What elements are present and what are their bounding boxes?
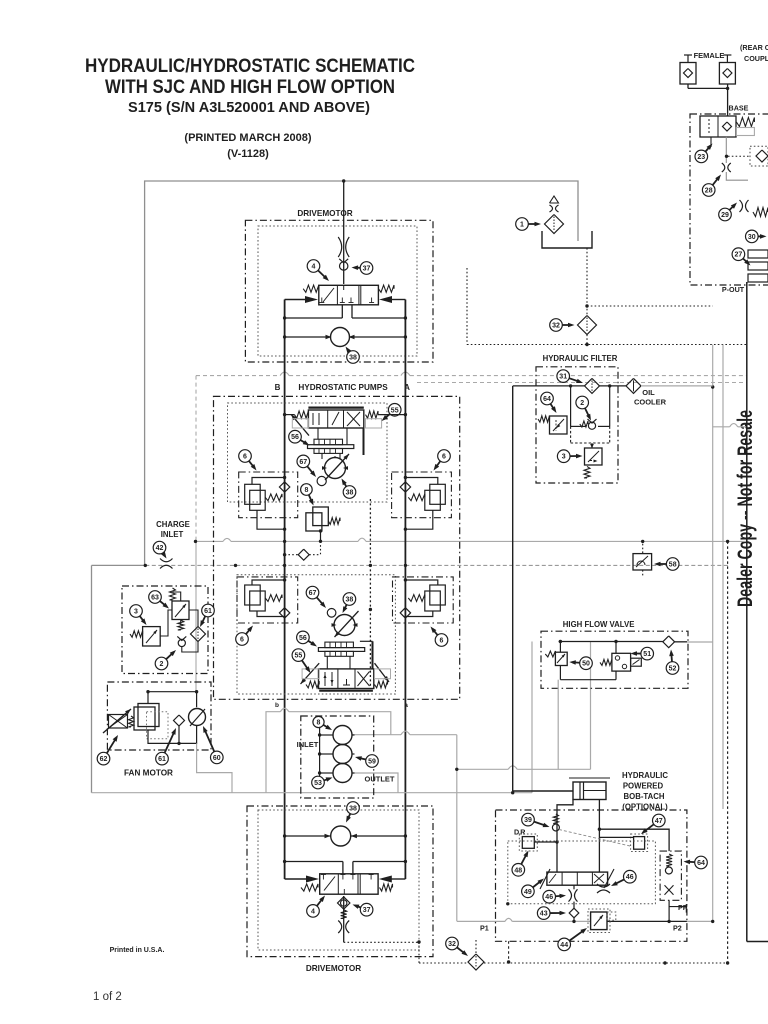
svg-text:COOLER: COOLER (634, 398, 667, 407)
svg-text:HYDRAULIC: HYDRAULIC (622, 771, 668, 780)
svg-text:COUPL: COUPL (744, 54, 768, 63)
svg-text:43: 43 (540, 911, 548, 918)
svg-text:P1: P1 (480, 924, 489, 933)
svg-text:Printed in U.S.A.: Printed in U.S.A. (110, 947, 165, 954)
svg-text:51: 51 (643, 651, 651, 658)
svg-text:1: 1 (520, 222, 524, 229)
svg-text:64: 64 (543, 396, 551, 403)
svg-text:1 of 2: 1 of 2 (93, 991, 122, 1003)
svg-text:58: 58 (669, 562, 677, 569)
svg-text:62: 62 (100, 756, 108, 763)
svg-text:60: 60 (213, 755, 221, 762)
svg-text:63: 63 (151, 595, 159, 602)
svg-text:61: 61 (204, 608, 212, 615)
svg-text:3: 3 (562, 454, 566, 461)
svg-text:DRIVEMOTOR: DRIVEMOTOR (306, 964, 361, 973)
svg-text:BOB-TACH: BOB-TACH (624, 792, 665, 801)
svg-text:8: 8 (317, 720, 321, 727)
svg-text:(REAR C: (REAR C (740, 43, 768, 52)
svg-text:2: 2 (160, 661, 164, 668)
svg-text:6: 6 (442, 454, 446, 461)
svg-text:32: 32 (552, 323, 560, 330)
svg-text:6: 6 (243, 454, 247, 461)
svg-text:37: 37 (363, 907, 371, 914)
svg-text:46: 46 (545, 894, 553, 901)
svg-text:44: 44 (560, 942, 568, 949)
svg-text:BASE: BASE (729, 104, 749, 113)
svg-text:(PRINTED MARCH 2008): (PRINTED MARCH 2008) (184, 132, 311, 144)
svg-text:FEMALE: FEMALE (694, 51, 725, 60)
svg-text:38: 38 (349, 355, 357, 362)
svg-text:Dealer Copy -- Not for Resale: Dealer Copy -- Not for Resale (734, 410, 757, 607)
svg-text:55: 55 (295, 653, 303, 660)
svg-text:29: 29 (721, 212, 729, 219)
svg-text:50: 50 (582, 661, 590, 668)
svg-text:S175 (S/N A3L520001 AND ABOVE): S175 (S/N A3L520001 AND ABOVE) (128, 99, 370, 116)
svg-text:HIGH FLOW VALVE: HIGH FLOW VALVE (563, 620, 635, 629)
svg-text:67: 67 (309, 590, 317, 597)
svg-text:46: 46 (626, 874, 634, 881)
svg-text:OUTLET: OUTLET (365, 775, 395, 784)
svg-text:HYDRAULIC/HYDROSTATIC SCHEMATI: HYDRAULIC/HYDROSTATIC SCHEMATIC (85, 56, 415, 77)
svg-text:59: 59 (368, 759, 376, 766)
svg-text:P-OUT: P-OUT (722, 285, 745, 294)
svg-text:6: 6 (240, 637, 244, 644)
svg-text:WITH SJC AND HIGH FLOW OPTION: WITH SJC AND HIGH FLOW OPTION (105, 77, 395, 98)
svg-text:61: 61 (158, 756, 166, 763)
svg-text:30: 30 (748, 234, 756, 241)
svg-text:A: A (404, 383, 410, 392)
svg-text:B: B (275, 383, 281, 392)
svg-text:4: 4 (312, 264, 316, 271)
svg-text:52: 52 (669, 666, 677, 673)
svg-text:DR: DR (514, 828, 526, 837)
svg-text:HYDROSTATIC PUMPS: HYDROSTATIC PUMPS (298, 383, 388, 392)
svg-text:64: 64 (697, 860, 705, 867)
svg-text:67: 67 (299, 459, 307, 466)
svg-text:P2: P2 (673, 924, 682, 933)
svg-text:2: 2 (580, 400, 584, 407)
svg-text:6: 6 (440, 638, 444, 645)
svg-text:37: 37 (363, 266, 371, 273)
svg-text:DRIVEMOTOR: DRIVEMOTOR (297, 209, 352, 218)
svg-text:(V-1128): (V-1128) (227, 148, 269, 160)
svg-text:42: 42 (156, 545, 164, 552)
svg-text:53: 53 (314, 780, 322, 787)
svg-text:55: 55 (391, 407, 399, 414)
svg-text:38: 38 (346, 490, 354, 497)
svg-text:4: 4 (311, 908, 315, 915)
svg-text:48: 48 (514, 867, 522, 874)
svg-text:POWERED: POWERED (623, 782, 664, 791)
svg-text:OIL: OIL (642, 388, 655, 397)
svg-text:56: 56 (291, 434, 299, 441)
svg-text:39: 39 (524, 817, 532, 824)
svg-text:INLET: INLET (161, 530, 184, 539)
svg-text:56: 56 (299, 635, 307, 642)
svg-text:32: 32 (448, 941, 456, 948)
svg-text:49: 49 (524, 889, 532, 896)
svg-text:HYDRAULIC FILTER: HYDRAULIC FILTER (543, 354, 618, 363)
svg-text:INLET: INLET (297, 740, 319, 749)
svg-text:b: b (275, 702, 279, 709)
svg-text:CHARGE: CHARGE (156, 520, 190, 529)
svg-text:a: a (404, 702, 408, 709)
svg-text:27: 27 (735, 252, 743, 259)
svg-text:FAN MOTOR: FAN MOTOR (124, 769, 173, 778)
svg-text:38: 38 (346, 597, 354, 604)
svg-text:47: 47 (655, 818, 663, 825)
svg-text:28: 28 (705, 188, 713, 195)
svg-text:PP: PP (678, 903, 688, 912)
svg-text:8: 8 (304, 487, 308, 494)
svg-text:38: 38 (349, 806, 357, 813)
svg-text:23: 23 (697, 154, 705, 161)
svg-text:31: 31 (559, 374, 567, 381)
svg-text:3: 3 (134, 609, 138, 616)
